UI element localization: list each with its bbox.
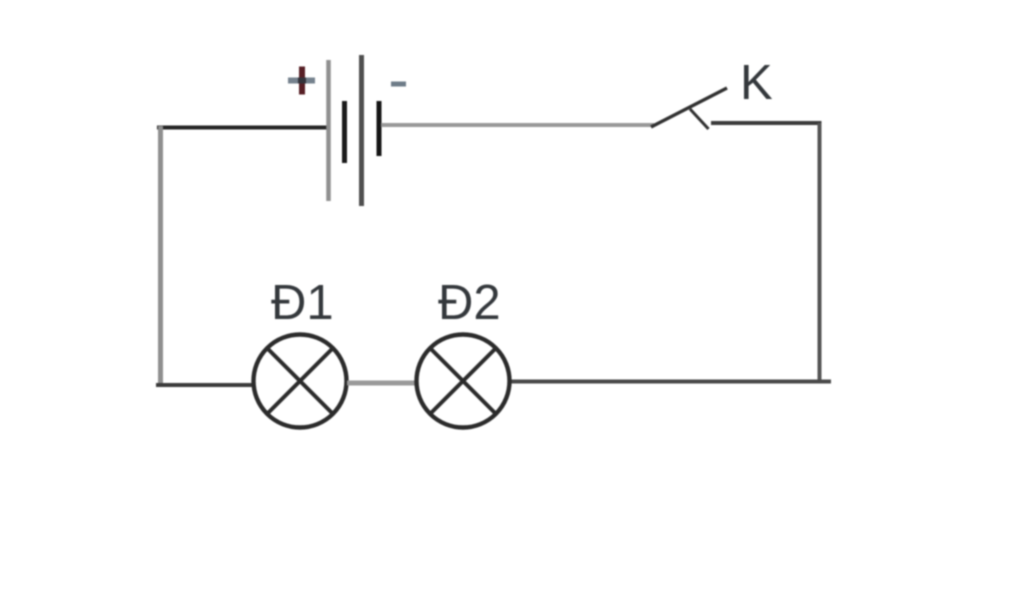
switch K: contact tick (690, 109, 709, 129)
battery polarity label: minus sign (391, 82, 406, 87)
battery polarity label: plus sign (288, 67, 315, 95)
battery: short plate of cell 1 (342, 101, 347, 163)
battery: long plate of cell 1 (positive) (326, 60, 331, 201)
lamp D2: circle with cross (417, 335, 510, 428)
battery: long plate of cell 2 (359, 55, 364, 206)
wire: battery negative to switch (381, 123, 654, 127)
wire: left vertical rail (158, 126, 163, 385)
lamp D1: circle with cross (254, 335, 347, 428)
wire: bottom horizontal (lamp D2 to right rail) (509, 380, 831, 384)
wire: between lamp D1 and lamp D2 (347, 381, 417, 386)
wire: bottom-left horizontal (left rail to lamp D1) (156, 383, 254, 387)
battery: short plate of cell 2 (negative) (377, 101, 382, 156)
svg-text:Đ1: Đ1 (271, 276, 334, 330)
switch K: lever arm (651, 88, 727, 127)
wire: top-left horizontal (left rail to battery + plate) (157, 126, 330, 130)
wire: right vertical rail (818, 123, 822, 381)
wire: switch to top-right corner (711, 121, 822, 125)
svg-text:K: K (740, 56, 773, 110)
svg-text:Đ2: Đ2 (438, 276, 501, 330)
